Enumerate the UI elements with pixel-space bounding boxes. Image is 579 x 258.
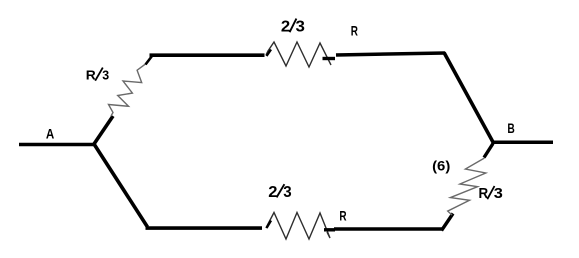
svg-text:R: R: [479, 186, 489, 202]
svg-text:R: R: [339, 207, 346, 223]
wire diagonal down to B: [444, 53, 494, 144]
wire diagonal A down to bottom branch: [94, 144, 148, 227]
wire A to top-left resistor: [94, 116, 113, 144]
wire right lead at B: [492, 141, 553, 145]
resistor R/3 top-left zigzag: [109, 63, 148, 117]
svg-text:R: R: [351, 22, 358, 38]
resistor 2/3R top zigzag: [266, 42, 331, 67]
resistor R/3 bottom-right zigzag: [448, 158, 486, 215]
wire end dash of bottom 2/3 resistor: [324, 228, 335, 231]
wire start tick of top 2/3 resistor: [267, 50, 272, 57]
svg-text:B: B: [507, 120, 514, 136]
wire top horizontal right segment: [336, 53, 445, 55]
wire tick bottom of R/3 resistor: [442, 214, 454, 231]
svg-text:2: 2: [281, 18, 290, 35]
wire top horizontal left segment: [150, 53, 265, 57]
svg-text:2: 2: [268, 184, 277, 201]
wire hook at top of R/3: [146, 56, 153, 65]
svg-text:A: A: [46, 126, 54, 142]
svg-text:(6): (6): [432, 158, 450, 174]
svg-text:3: 3: [283, 184, 292, 201]
wire end dash of top 2/3 resistor: [323, 57, 336, 60]
resistor 2/3R bottom zigzag: [266, 213, 330, 240]
wire tick top of R/3 resistor to B: [484, 144, 493, 158]
wire start tick of bottom 2/3 resistor: [267, 221, 272, 229]
svg-text:3: 3: [296, 18, 306, 35]
svg-text:3: 3: [494, 186, 503, 202]
wire bottom horizontal right segment: [334, 227, 442, 231]
wire bottom horizontal left segment: [146, 226, 263, 230]
wire left lead at A: [19, 143, 96, 147]
svg-text:3: 3: [102, 67, 109, 82]
